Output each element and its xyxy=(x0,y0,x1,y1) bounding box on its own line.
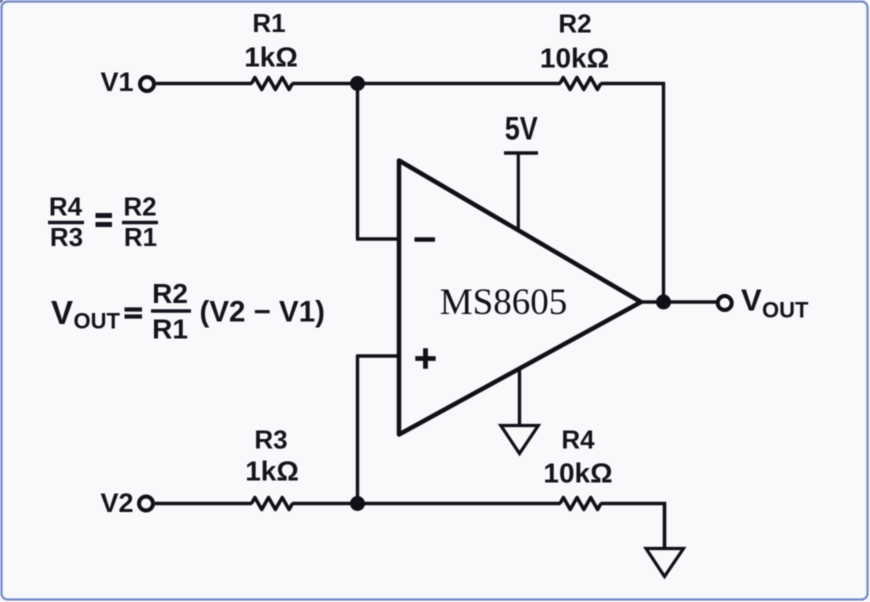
wire R2 to corner xyxy=(601,82,666,85)
wire V1 to R1 xyxy=(156,82,252,85)
resistor R4 xyxy=(560,498,601,510)
svg-text:V: V xyxy=(51,294,73,331)
ground symbol below op-amp xyxy=(501,426,539,454)
resistor R3 xyxy=(252,498,293,510)
wire inverting input horizontal xyxy=(356,237,401,240)
wire down to ground xyxy=(663,502,667,549)
svg-text:R4: R4 xyxy=(561,425,595,455)
wire R1 to R2 xyxy=(292,82,561,85)
svg-text:R2: R2 xyxy=(558,9,591,39)
wire output xyxy=(640,300,717,303)
node V2 terminal xyxy=(139,497,153,511)
svg-text:R1: R1 xyxy=(252,8,285,38)
node VOUT terminal xyxy=(718,296,732,310)
wire R3 to R4 xyxy=(292,502,561,505)
svg-text:V: V xyxy=(741,283,762,318)
node V1 terminal xyxy=(140,77,154,91)
svg-text:1kΩ: 1kΩ xyxy=(244,42,298,73)
equation 1 equals sign xyxy=(96,216,113,225)
node junction top xyxy=(350,76,365,91)
resistor R2 xyxy=(560,78,601,90)
svg-text:1kΩ: 1kΩ xyxy=(245,456,299,487)
wire R4 to ground corner xyxy=(601,502,667,505)
ground symbol bottom right xyxy=(646,549,684,577)
svg-text:R1: R1 xyxy=(152,314,188,345)
wire V2 to R3 xyxy=(155,502,252,505)
svg-text:R4: R4 xyxy=(49,192,83,222)
svg-text:5V: 5V xyxy=(505,111,539,147)
svg-text:R3: R3 xyxy=(50,222,83,252)
svg-text:OUT: OUT xyxy=(762,298,809,323)
resistor R1 xyxy=(252,78,293,90)
power 5V bar xyxy=(504,151,538,155)
equation 2 equals sign xyxy=(125,310,143,317)
svg-text:R1: R1 xyxy=(124,222,157,252)
op-amp minus input sign xyxy=(415,237,436,242)
wire noninverting input vertical xyxy=(356,356,359,504)
wire feedback vertical xyxy=(662,82,665,302)
svg-text:V2: V2 xyxy=(100,488,133,518)
power 5V stem xyxy=(517,153,520,229)
ground stem below op-amp xyxy=(518,370,521,426)
svg-text:MS8605: MS8605 xyxy=(440,282,567,323)
equation 1 fraction bar left xyxy=(48,221,84,225)
svg-text:(V2 − V1): (V2 − V1) xyxy=(200,296,325,329)
op-amp plus input sign xyxy=(415,348,435,368)
svg-text:10kΩ: 10kΩ xyxy=(540,43,609,74)
wire inverting input vertical xyxy=(356,84,359,240)
op-amp U1 triangle xyxy=(399,161,641,435)
wire noninverting input horizontal xyxy=(356,354,401,357)
node output junction xyxy=(656,295,671,310)
svg-text:OUT: OUT xyxy=(74,309,121,334)
svg-text:R2: R2 xyxy=(123,192,156,222)
equation 1 fraction bar right xyxy=(122,221,158,225)
svg-text:R3: R3 xyxy=(254,425,287,455)
svg-text:10kΩ: 10kΩ xyxy=(543,458,612,489)
node junction bottom xyxy=(350,496,365,511)
svg-text:R2: R2 xyxy=(152,278,188,309)
svg-text:V1: V1 xyxy=(100,67,133,97)
equation 2 fraction bar xyxy=(151,309,191,313)
